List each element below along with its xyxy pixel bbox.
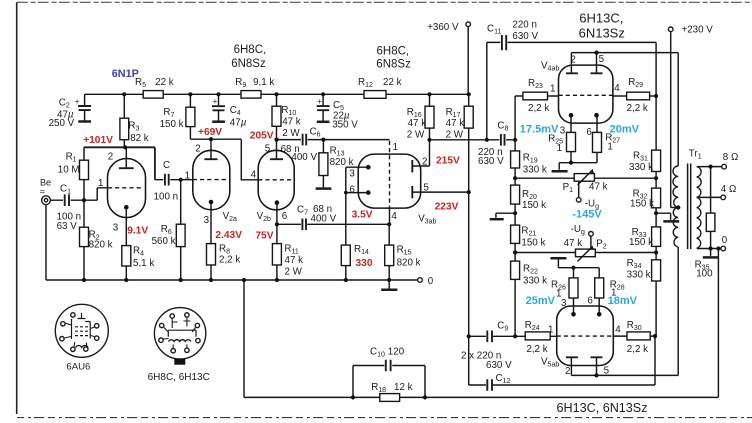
svg-text:1: 1 [607, 141, 612, 152]
svg-text:4: 4 [391, 211, 397, 222]
svg-text:630 V: 630 V [478, 156, 504, 167]
svg-text:3: 3 [113, 222, 119, 233]
svg-text:350 V: 350 V [332, 119, 358, 130]
svg-text:≈: ≈ [40, 187, 45, 197]
svg-text:6N8Sz: 6N8Sz [376, 59, 411, 71]
svg-text:3: 3 [349, 169, 355, 180]
svg-text:150 k: 150 k [521, 237, 545, 248]
svg-text:75V: 75V [255, 230, 273, 241]
svg-text:47 k: 47 k [446, 118, 465, 129]
svg-text:400 V: 400 V [291, 152, 317, 163]
svg-text:6AU6: 6AU6 [66, 361, 90, 372]
svg-text:100: 100 [696, 269, 713, 280]
svg-text:18mV: 18mV [608, 295, 638, 307]
svg-text:25mV: 25mV [526, 295, 556, 307]
svg-text:220 n: 220 n [512, 20, 537, 31]
svg-text:330 k: 330 k [627, 270, 651, 281]
svg-text:17.5mV: 17.5mV [520, 124, 559, 136]
svg-text:47 k: 47 k [408, 118, 427, 129]
svg-text:5: 5 [599, 54, 605, 65]
svg-text:3: 3 [560, 125, 566, 136]
svg-text:5: 5 [423, 182, 429, 193]
svg-text:1: 1 [557, 143, 562, 154]
svg-text:2,2 k: 2,2 k [526, 344, 547, 355]
svg-text:47 k: 47 k [564, 238, 583, 249]
svg-text:330: 330 [356, 258, 373, 269]
svg-text:150 k: 150 k [160, 119, 184, 130]
svg-text:6H13C, 6N13Sz: 6H13C, 6N13Sz [557, 401, 648, 415]
svg-text:215V: 215V [436, 156, 460, 167]
svg-text:6H8C,: 6H8C, [377, 46, 410, 58]
svg-text:2,2 k: 2,2 k [219, 254, 240, 265]
svg-text:2,2 k: 2,2 k [627, 344, 648, 355]
svg-text:47µ: 47µ [230, 117, 247, 128]
svg-text:2: 2 [195, 143, 200, 154]
svg-text:12 k: 12 k [394, 382, 413, 393]
svg-text:6N1P: 6N1P [112, 68, 139, 80]
svg-text:3: 3 [561, 298, 567, 309]
svg-text:6H8C,: 6H8C, [234, 44, 267, 56]
svg-text:2 W: 2 W [282, 128, 300, 139]
svg-text:+360 V: +360 V [427, 22, 459, 33]
svg-text:5,1 k: 5,1 k [133, 258, 154, 269]
svg-text:3: 3 [204, 215, 210, 226]
svg-text:330 k: 330 k [523, 164, 547, 175]
svg-text:205V: 205V [250, 130, 274, 141]
svg-text:4: 4 [615, 325, 621, 336]
svg-text:1: 1 [548, 325, 553, 336]
svg-text:400 V: 400 V [311, 214, 337, 225]
svg-text:6: 6 [587, 296, 593, 307]
svg-text:4: 4 [614, 83, 620, 94]
svg-text:-145V: -145V [572, 209, 602, 221]
svg-text:+: + [75, 97, 80, 106]
svg-text:120: 120 [388, 347, 405, 358]
svg-text:2,2 k: 2,2 k [528, 103, 549, 114]
svg-text:2 W: 2 W [446, 130, 464, 141]
svg-text:82 k: 82 k [130, 133, 149, 144]
svg-text:330 k: 330 k [523, 276, 547, 287]
svg-text:820 k: 820 k [397, 258, 421, 269]
svg-text:3.5V: 3.5V [352, 209, 373, 220]
svg-text:630 V: 630 V [486, 360, 512, 371]
svg-text:22 k: 22 k [383, 77, 402, 88]
svg-text:6: 6 [349, 184, 355, 195]
svg-text:820 k: 820 k [89, 239, 113, 250]
svg-text:330 k: 330 k [629, 162, 653, 173]
svg-text:47 k: 47 k [285, 255, 304, 266]
svg-text:560 k: 560 k [152, 236, 176, 247]
svg-text:C: C [163, 160, 170, 171]
svg-text:2 W: 2 W [285, 266, 303, 277]
svg-text:+230 V: +230 V [682, 24, 714, 35]
svg-text:63 V: 63 V [57, 221, 78, 232]
svg-text:9,1 k: 9,1 k [253, 77, 274, 88]
svg-text:5: 5 [265, 143, 271, 154]
svg-text:6N13Sz: 6N13Sz [579, 26, 625, 41]
svg-text:820 k: 820 k [330, 157, 354, 168]
svg-text:2: 2 [565, 366, 570, 377]
svg-text:223V: 223V [435, 201, 459, 212]
svg-text:150 k: 150 k [630, 199, 654, 210]
svg-text:2 W: 2 W [407, 130, 425, 141]
svg-text:6H8C, 6H13C: 6H8C, 6H13C [148, 372, 210, 383]
svg-text:8 Ω: 8 Ω [723, 152, 739, 163]
svg-text:250 V: 250 V [49, 118, 75, 129]
svg-text:2: 2 [108, 151, 113, 162]
svg-text:6: 6 [282, 211, 288, 222]
svg-text:0: 0 [428, 276, 434, 287]
svg-text:2: 2 [422, 156, 427, 167]
svg-text:4: 4 [251, 169, 257, 180]
svg-text:10 M: 10 M [58, 165, 80, 176]
svg-text:47 k: 47 k [589, 182, 608, 193]
svg-text:6: 6 [586, 127, 592, 138]
svg-text:6N8Sz: 6N8Sz [231, 58, 266, 70]
svg-text:+101V: +101V [83, 135, 113, 146]
svg-text:150 k: 150 k [629, 237, 653, 248]
svg-text:150 k: 150 k [522, 200, 546, 211]
svg-text:5: 5 [604, 366, 610, 377]
svg-text:1: 1 [550, 84, 555, 95]
svg-text:2: 2 [570, 55, 575, 66]
svg-text:+: + [317, 97, 322, 106]
svg-text:6H13C,: 6H13C, [579, 10, 623, 25]
svg-text:2,2 k: 2,2 k [627, 103, 648, 114]
svg-text:+69V: +69V [198, 127, 222, 138]
svg-text:1: 1 [185, 170, 190, 181]
svg-text:+: + [213, 97, 218, 106]
svg-text:1: 1 [98, 178, 103, 189]
svg-text:20mV: 20mV [610, 124, 640, 136]
svg-text:4 Ω: 4 Ω [721, 184, 737, 195]
svg-text:47 k: 47 k [282, 116, 301, 127]
svg-text:100 n: 100 n [154, 191, 179, 202]
svg-text:630 V: 630 V [512, 31, 538, 42]
svg-text:9.1V: 9.1V [127, 226, 148, 237]
svg-text:1: 1 [393, 142, 398, 153]
svg-text:2.43V: 2.43V [215, 230, 242, 241]
svg-text:22 k: 22 k [155, 77, 174, 88]
svg-text:0: 0 [722, 235, 728, 246]
